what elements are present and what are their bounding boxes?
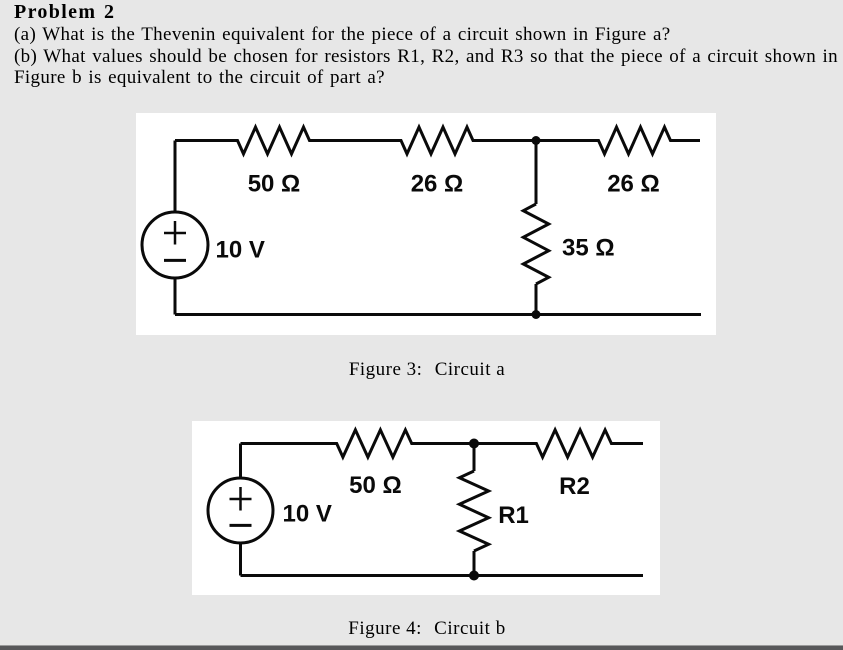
node B bottom junction: [532, 310, 541, 319]
wire: middle vertical branch bottom: [535, 284, 538, 315]
svg-text:26 Ω: 26 Ω: [411, 170, 464, 197]
wire: left branch to source V1 top: [174, 141, 177, 212]
resistor R1 vertical zigzag: [459, 471, 488, 551]
svg-text:26 Ω: 26 Ω: [607, 170, 660, 197]
wire: bottom rail: [241, 574, 644, 577]
svg-text:10 V: 10 V: [283, 501, 332, 528]
caption figure 3: [0, 360, 843, 380]
problem text: [14, 2, 838, 89]
source V1 circle: [142, 212, 208, 278]
resistor 35ohm vertical zigzag: [523, 204, 548, 284]
source V2 circle: [208, 478, 273, 543]
figure a white panel: [136, 113, 716, 335]
wire: source V1 bottom to bottom rail: [174, 279, 177, 315]
wire: middle vertical branch top: [473, 444, 476, 472]
bottom divider light line: [0, 645, 843, 646]
wire: middle vertical branch top: [535, 141, 538, 205]
wire: source V2 bottom to bottom rail: [239, 544, 242, 576]
minus sign of source: [164, 259, 186, 262]
node D bottom junction: [469, 571, 479, 581]
caption figure 4: [0, 619, 843, 639]
minus sign of source: [230, 524, 252, 527]
node A top junction: [532, 136, 541, 145]
wire: left branch to source V2 top: [239, 444, 242, 478]
wire: bottom rail: [175, 313, 701, 316]
svg-text:50 Ω: 50 Ω: [349, 472, 402, 499]
wire: top run with resistor 50ohm and resistor R2: [241, 430, 644, 457]
svg-text:50 Ω: 50 Ω: [248, 170, 301, 197]
plus sign of source: [164, 221, 186, 245]
wire: middle vertical branch bottom: [473, 551, 476, 576]
svg-text:R1: R1: [498, 502, 529, 529]
bottom dark bar: [0, 646, 843, 650]
svg-text:10 V: 10 V: [216, 236, 265, 263]
svg-text:R2: R2: [559, 473, 590, 500]
plus sign of source: [230, 487, 252, 511]
node C top junction: [469, 439, 479, 449]
wire: top run with resistor 50ohm, resistor 26ohm, resistor 26ohm: [175, 127, 700, 154]
svg-text:35 Ω: 35 Ω: [562, 235, 615, 262]
figure b white panel: [192, 421, 660, 595]
